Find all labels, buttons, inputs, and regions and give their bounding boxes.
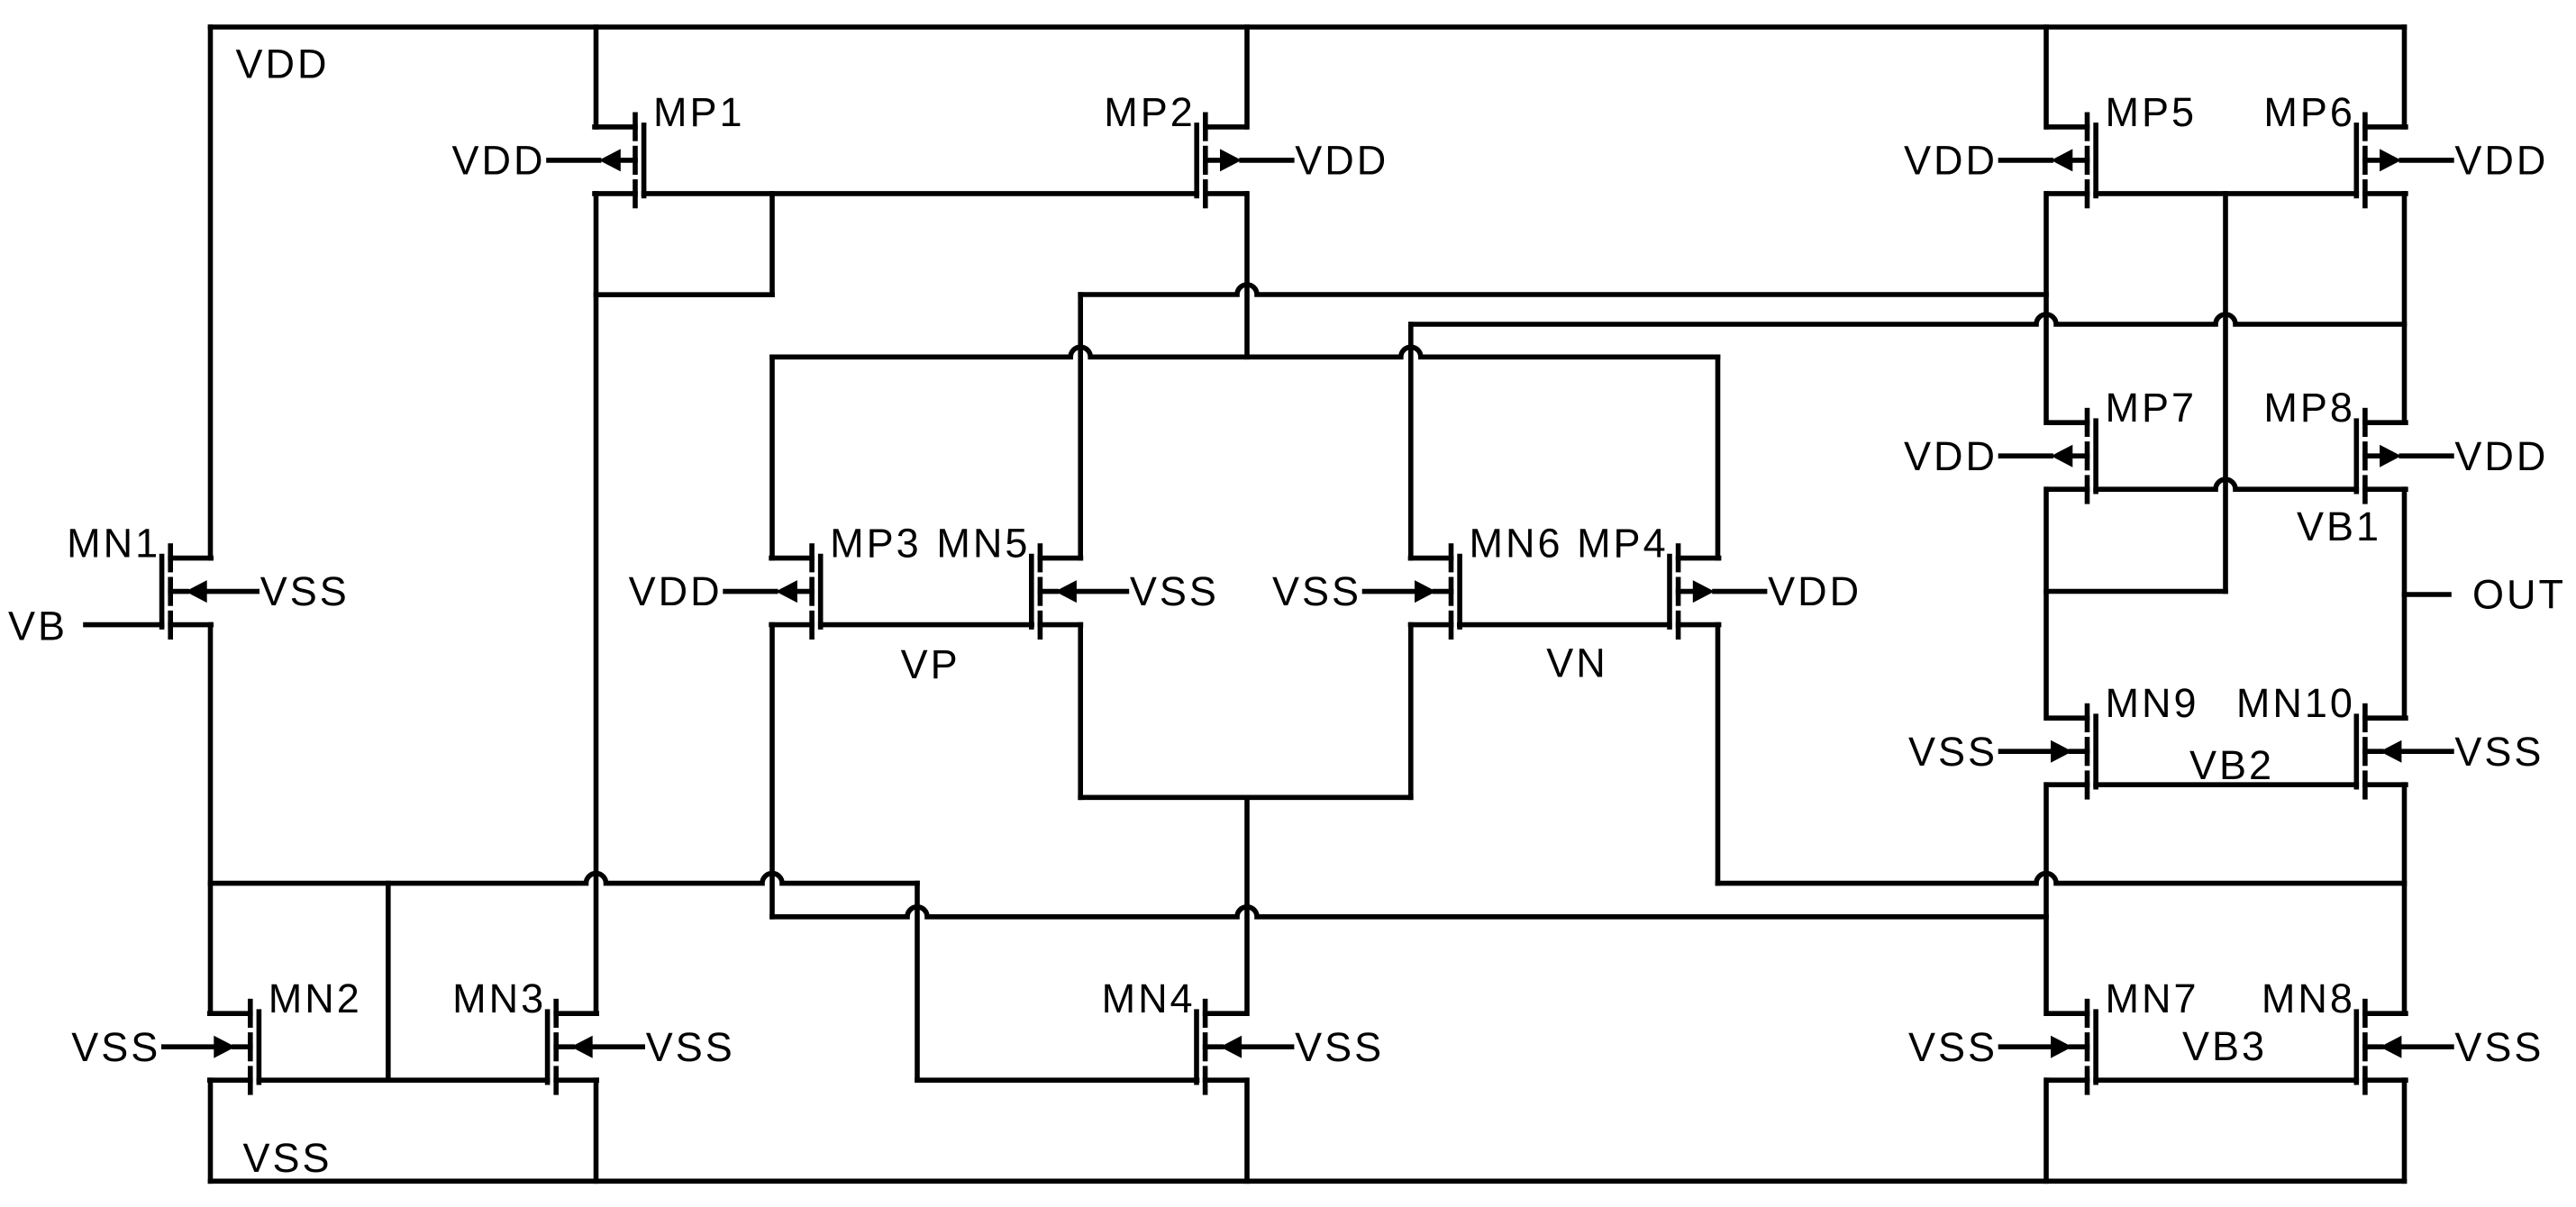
transistor MN2 drain stub	[210, 1011, 250, 1016]
transistor MP2 drain stub	[1206, 124, 1246, 130]
wire MP2 drain down to pair source rail	[1244, 194, 1250, 357]
transistor MN10 source stub	[2365, 782, 2406, 787]
transistor MN2 channel	[248, 1002, 253, 1026]
transistor MN7 source stub	[2047, 1077, 2088, 1083]
transistor MN1 drain stub	[170, 556, 211, 561]
transistor MP6 source stub	[2365, 191, 2406, 196]
wire MP6 drain to MP8 source	[2402, 194, 2408, 422]
transistor MP7 source stub	[2047, 486, 2088, 492]
svg-text:MN8: MN8	[2262, 976, 2355, 1021]
transistor MN1 gate bar	[159, 557, 165, 628]
svg-text:VDD: VDD	[1768, 568, 1861, 614]
transistor MN7 bulk wire and arrow	[2071, 1044, 2088, 1049]
transistor MN5 drain stub	[1040, 556, 1080, 561]
wire MN2 gate to MN3 gate	[259, 1077, 547, 1083]
wire MP4 drain down	[1716, 625, 1721, 884]
svg-text:VSS: VSS	[1908, 729, 1998, 775]
transistor MN4 channel	[1203, 1002, 1208, 1026]
transistor MP5 drain stub	[2047, 124, 2088, 130]
transistor MN3 gate bar	[545, 1012, 551, 1083]
wire VP gate line MP3-MN5	[821, 622, 1032, 628]
transistor MN2 source stub	[210, 1077, 250, 1083]
wire MP2 source to VDD rail	[1244, 27, 1250, 127]
transistor MN5 channel	[1038, 546, 1043, 570]
transistor MN6 channel	[1449, 546, 1454, 570]
transistor MP1 drain stub	[595, 124, 635, 130]
svg-text:VB2: VB2	[2189, 742, 2274, 788]
transistor MN9 channel	[2085, 706, 2090, 731]
transistor MP2 source stub	[1206, 191, 1246, 196]
transistor MN2 gate bar	[257, 1012, 262, 1083]
transistor MN8 channel	[2362, 1002, 2368, 1026]
transistor MN7 gate bar	[2093, 1012, 2098, 1083]
transistor MN7 channel	[2085, 1002, 2090, 1026]
svg-text:VDD: VDD	[451, 138, 545, 184]
transistor MN3 channel	[553, 1002, 559, 1026]
wire left border: VDD rail to MN1 drain	[208, 27, 214, 558]
transistor MN3 source stub	[556, 1077, 596, 1083]
transistor MN9 source stub	[2047, 782, 2088, 787]
svg-text:VSS: VSS	[260, 568, 350, 614]
transistor MP3 source stub	[771, 622, 812, 628]
transistor MN1 source stub	[170, 622, 211, 628]
wire MP1 source to VDD rail	[594, 27, 599, 127]
svg-text:MP4: MP4	[1577, 521, 1669, 567]
wire MN5 drain feed to MP5/MP7 node	[1080, 285, 2046, 295]
transistor MN2 bulk wire and arrow	[234, 1044, 250, 1049]
transistor MN8 gate bar	[2354, 1012, 2360, 1083]
wire MN2 source to VSS rail	[208, 1080, 214, 1181]
svg-text:VSS: VSS	[646, 1024, 735, 1070]
svg-text:VSS: VSS	[2454, 729, 2544, 775]
transistor MN3 drain stub	[556, 1011, 596, 1016]
svg-text:VB1: VB1	[2297, 504, 2381, 549]
wire MP8 drain to MN10 drain (OUT)	[2402, 489, 2408, 718]
wire MN4 drain up to tail rail	[1244, 797, 1250, 1013]
transistor MP2 channel	[1203, 114, 1208, 139]
wire VDD top rail	[211, 24, 2405, 30]
transistor MN1 channel	[168, 546, 173, 570]
transistor MP5 source stub	[2047, 191, 2088, 196]
wire gate bias to cascode node	[2046, 589, 2226, 594]
node B: rail MP3 drain to MN9 source / MN7 drain	[772, 907, 2046, 917]
transistor MP8 drain stub	[2365, 420, 2406, 425]
transistor MP4 gate bar	[1667, 557, 1672, 628]
transistor MN5 gate bar	[1029, 557, 1034, 628]
svg-text:MN2: MN2	[269, 976, 362, 1021]
transistor MN9 gate bar	[2093, 716, 2098, 787]
wire node A down to MN4 gate	[915, 884, 920, 1081]
wire MN5 source down	[1078, 625, 1083, 798]
transistor MP4 source stub	[1679, 622, 1719, 628]
transistor MP7 channel	[2085, 411, 2090, 435]
wire MP1/MP2 gate line	[644, 191, 1197, 196]
transistor MP1 bulk wire and arrow	[619, 158, 635, 163]
svg-text:MN7: MN7	[2106, 976, 2199, 1021]
transistor MN10 gate bar	[2354, 716, 2360, 787]
transistor MP4 channel	[1676, 546, 1681, 570]
wire MN3 source to VSS rail	[594, 1080, 599, 1181]
svg-text:MP8: MP8	[2263, 385, 2355, 431]
transistor MP1 source stub	[595, 191, 635, 196]
svg-text:MN3: MN3	[452, 976, 546, 1021]
transistor MP7 gate bar	[2093, 421, 2098, 492]
transistor MN8 bulk wire and arrow	[2365, 1044, 2381, 1049]
wire VB input to MN1 gate	[86, 622, 162, 628]
svg-text:MP3: MP3	[830, 521, 922, 567]
svg-text:VSS: VSS	[243, 1135, 332, 1181]
transistor MP2 bulk wire and arrow	[1206, 158, 1222, 163]
wire node A drop to MN2/MN3 gate line	[386, 884, 391, 1081]
transistor MN6 source stub	[1411, 622, 1452, 628]
svg-text:MN1: MN1	[67, 521, 160, 567]
wire MN10 source to MN8 drain	[2402, 785, 2408, 1013]
svg-text:MN6: MN6	[1470, 521, 1563, 567]
transistor MP7 drain stub	[2047, 420, 2088, 425]
transistor MN8 drain stub	[2365, 1011, 2406, 1016]
wire MN9 source to MN7 drain	[2044, 785, 2049, 1013]
wire OUT stub	[2405, 592, 2450, 597]
transistor MP5 gate bar	[2093, 125, 2098, 196]
wire MN7 source to VSS rail	[2044, 1080, 2049, 1181]
wire MN6 source down	[1408, 625, 1414, 798]
svg-text:VP: VP	[901, 641, 960, 687]
svg-text:MN9: MN9	[2106, 680, 2199, 726]
transistor MN8 source stub	[2365, 1077, 2406, 1083]
svg-text:MN4: MN4	[1102, 976, 1196, 1021]
svg-text:VDD: VDD	[2454, 138, 2548, 184]
wire MN5 drain up	[1078, 295, 1083, 558]
transistor MP5 bulk wire and arrow	[2071, 158, 2088, 163]
wire MP5/MP6 gates down	[2223, 194, 2228, 592]
transistor MP3 gate bar	[818, 557, 824, 628]
transistor MP3 channel	[809, 546, 815, 570]
wire MP3 source up	[769, 357, 775, 558]
svg-text:VDD: VDD	[236, 41, 330, 86]
wire VN gate line MN6-MP4	[1460, 622, 1670, 628]
svg-text:MP2: MP2	[1104, 89, 1196, 135]
wire MN4 source to VSS rail	[1244, 1080, 1250, 1181]
svg-text:MP7: MP7	[2106, 385, 2198, 431]
svg-text:VSS: VSS	[71, 1024, 160, 1070]
transistor MN7 drain stub	[2047, 1011, 2088, 1016]
transistor MN9 bulk wire and arrow	[2071, 749, 2088, 754]
svg-text:VSS: VSS	[2454, 1024, 2544, 1070]
svg-text:VDD: VDD	[1904, 138, 1998, 184]
wire MP5 source to VDD rail	[2044, 27, 2049, 127]
wire MN6 drain up	[1408, 324, 1414, 558]
transistor MN5 bulk wire and arrow	[1040, 589, 1056, 594]
transistor MN6 drain stub	[1411, 556, 1452, 561]
transistor MP8 gate bar	[2354, 421, 2360, 492]
wire tail rail MN5/MN6 sources	[1080, 794, 1411, 800]
wire MP7 drain to MN9 drain	[2044, 489, 2049, 718]
transistor MN9 drain stub	[2047, 715, 2088, 721]
wire VSS bottom rail	[211, 1179, 2405, 1184]
transistor MN10 channel	[2362, 706, 2368, 731]
svg-text:VSS: VSS	[1130, 568, 1219, 614]
transistor MP3 drain stub	[771, 556, 812, 561]
transistor MP6 channel	[2362, 114, 2368, 139]
node A: rail MN1 source / MN2 drain / mirror gates	[211, 874, 918, 884]
transistor MP6 gate bar	[2354, 125, 2360, 196]
svg-text:OUT: OUT	[2472, 572, 2566, 618]
wire MP6 source to VDD rail	[2402, 27, 2408, 127]
transistor MP5 channel	[2085, 114, 2090, 139]
transistor MP8 bulk wire and arrow	[2365, 453, 2381, 458]
wire MN9/MN10 gate line VB2	[2096, 782, 2356, 787]
wire MP5 drain to MP7 source	[2044, 194, 2049, 422]
svg-text:VDD: VDD	[629, 568, 723, 614]
svg-text:MP5: MP5	[2106, 89, 2198, 135]
svg-text:VN: VN	[1546, 640, 1608, 686]
svg-text:VSS: VSS	[1295, 1024, 1384, 1070]
wire MP7/MP8 gate line VB1	[2096, 479, 2356, 489]
wire MP1 drain / diode loop / down to MN3 drain	[594, 194, 599, 1013]
transistor MN4 source stub	[1206, 1077, 1246, 1083]
transistor MN1 bulk wire and arrow	[170, 589, 187, 594]
svg-text:VSS: VSS	[1272, 568, 1361, 614]
wire MN7/MN8 gate line VB3	[2096, 1077, 2356, 1083]
transistor MN6 gate bar	[1457, 557, 1462, 628]
transistor MP6 bulk wire and arrow	[2365, 158, 2381, 163]
svg-text:VDD: VDD	[2454, 433, 2548, 479]
svg-text:MP6: MP6	[2263, 89, 2355, 135]
svg-text:VSS: VSS	[1908, 1024, 1998, 1070]
transistor MN6 bulk wire and arrow	[1435, 589, 1452, 594]
transistor MP1 channel	[633, 114, 638, 139]
wire P-pair source rail: MP3/MP4 sources	[772, 347, 1718, 357]
transistor MN4 drain stub	[1206, 1011, 1246, 1016]
svg-text:VDD: VDD	[1295, 138, 1388, 184]
transistor MN10 bulk wire and arrow	[2365, 749, 2381, 754]
wire to MN4 gate	[917, 1077, 1197, 1083]
transistor MP7 bulk wire and arrow	[2071, 453, 2088, 458]
transistor MN4 gate bar	[1194, 1012, 1199, 1083]
transistor MP2 gate bar	[1194, 125, 1199, 196]
svg-text:MN10: MN10	[2236, 680, 2355, 726]
transistor MP8 channel	[2362, 411, 2368, 435]
wire MP5/MP6 gate line	[2096, 191, 2356, 196]
svg-text:VB3: VB3	[2182, 1023, 2267, 1069]
wire MN8 source to VSS rail	[2402, 1080, 2408, 1181]
transistor MN4 bulk wire and arrow	[1206, 1044, 1222, 1049]
wire MP3 drain down	[769, 625, 775, 917]
transistor MP8 source stub	[2365, 486, 2406, 492]
transistor MP3 bulk wire and arrow	[796, 589, 812, 594]
transistor MP4 drain stub	[1679, 556, 1719, 561]
transistor MN5 source stub	[1040, 622, 1080, 628]
transistor MN3 bulk wire and arrow	[556, 1044, 572, 1049]
svg-text:VDD: VDD	[1904, 433, 1998, 479]
transistor MP6 drain stub	[2365, 124, 2406, 130]
transistor MP1 gate bar	[642, 125, 647, 196]
svg-text:MN5: MN5	[936, 521, 1030, 567]
wire MP4 source up	[1716, 357, 1721, 558]
transistor MP4 bulk wire and arrow	[1679, 589, 1695, 594]
wire MN6 drain feed to MP6/MP8 node	[1411, 314, 2405, 324]
svg-text:MP1: MP1	[653, 89, 745, 135]
transistor MN10 drain stub	[2365, 715, 2406, 721]
wire MN1 source to MN2 drain	[208, 625, 214, 1014]
wire MP4 drain to MN10 source / MN8 drain	[1718, 874, 2405, 884]
svg-text:VB: VB	[8, 603, 68, 649]
